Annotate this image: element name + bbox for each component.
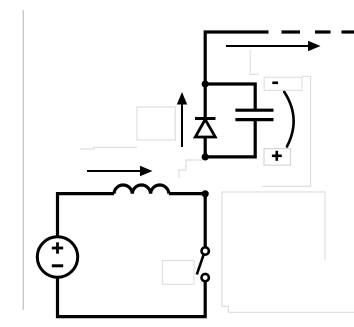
switch S bbox=[197, 247, 209, 281]
label - inside source bbox=[52, 264, 63, 267]
voltage source bbox=[37, 237, 77, 277]
diode D bbox=[195, 119, 216, 138]
wire: dashed output continuation bbox=[282, 30, 354, 33]
label - (output minus) bbox=[272, 82, 278, 85]
wire: capacitor top lead bbox=[205, 84, 255, 110]
current arrow: inductor current bbox=[87, 166, 153, 177]
node: capacitor bottom junction bbox=[202, 153, 209, 160]
wire: source top to inductor bbox=[58, 194, 115, 237]
faint ghost outline near capacitor bbox=[250, 50, 310, 187]
faint ghost box mid-left bbox=[137, 107, 175, 140]
label + (output plus) bbox=[272, 151, 282, 161]
current arrow: diode current (up) bbox=[177, 92, 187, 147]
faint page edge line bbox=[22, 10, 24, 310]
faint ghost box around plus label bbox=[264, 149, 291, 166]
capacitor C bbox=[235, 110, 273, 119]
wire: switch top lead bbox=[204, 194, 207, 248]
wire: diode branch vertical bbox=[204, 84, 207, 157]
wire: source bottom loop bbox=[58, 277, 206, 317]
inductor L bbox=[114, 185, 169, 194]
node: switch node top (junction of diode top and capacitor top) bbox=[202, 80, 209, 87]
wire: inductor to switch node bbox=[169, 192, 205, 195]
wire: top output wire bbox=[204, 30, 269, 84]
output voltage arc bbox=[284, 92, 293, 147]
wire: capacitor bottom lead bbox=[205, 120, 255, 157]
current arrow: output current (top) bbox=[226, 41, 321, 52]
faint ghost step line bbox=[80, 147, 137, 149]
faint ghost region lower right bbox=[179, 160, 354, 312]
node: inductor junction bbox=[202, 190, 209, 197]
label + inside source bbox=[52, 242, 63, 253]
faint ghost box near switch bbox=[163, 261, 195, 285]
